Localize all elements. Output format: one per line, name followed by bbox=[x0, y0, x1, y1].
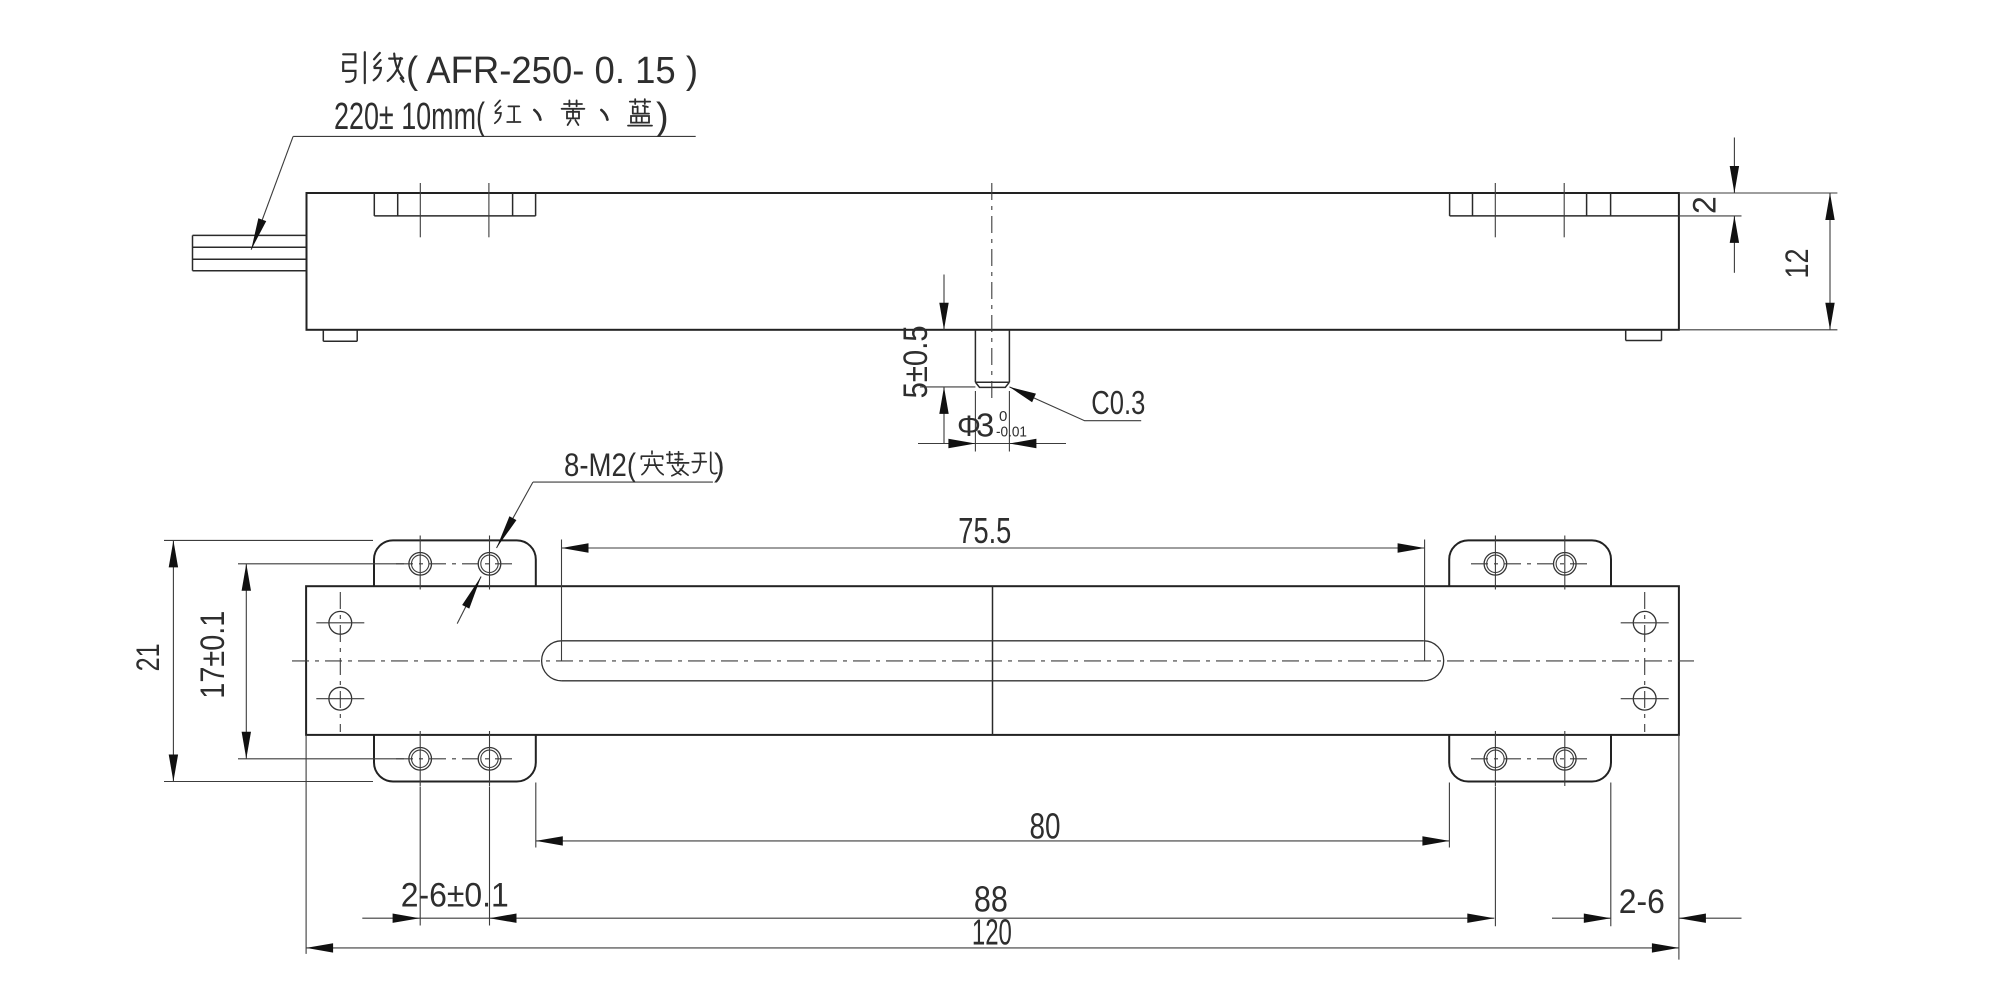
svg-text:C0.3: C0.3 bbox=[1091, 384, 1145, 421]
svg-text:2-6±0.1: 2-6±0.1 bbox=[401, 876, 509, 914]
dimension 80 bbox=[536, 840, 1450, 842]
dimension 2 (step depth) bbox=[1733, 138, 1735, 194]
svg-text:8-M2(: 8-M2( bbox=[564, 447, 636, 483]
M2 hole 7 bbox=[1484, 748, 1507, 771]
lead wires (3 wires, 4 lines + end cap) bbox=[193, 234, 307, 236]
side view body outline bbox=[307, 193, 1679, 330]
right foot bbox=[1625, 330, 1627, 341]
tab hole centerlines (horizontal dash-dot) bbox=[396, 563, 513, 565]
dimension Φ3 0/-0.01 (pin diameter) bbox=[974, 391, 976, 452]
C0.3 chamfer leader bbox=[1009, 387, 1141, 421]
svg-text:3: 3 bbox=[976, 407, 994, 444]
M2 hole axis lines (side view) bbox=[419, 183, 421, 237]
end hole 1 bbox=[329, 611, 352, 634]
M2 hole 3 bbox=[1484, 553, 1507, 576]
8-M2 mounting holes label bbox=[533, 481, 713, 483]
M2 hole 6 bbox=[478, 748, 501, 771]
dimension 12 (body height) bbox=[1829, 193, 1831, 330]
pin vertical centerline bbox=[991, 183, 993, 400]
top edge extension line bbox=[1679, 192, 1838, 194]
svg-text:220± 10mm(: 220± 10mm( bbox=[334, 96, 485, 138]
center slot (rounded ends) bbox=[562, 640, 1424, 642]
top-left mounting tab bbox=[374, 540, 536, 586]
end hole 2 bbox=[329, 687, 352, 710]
step extension line bbox=[1679, 215, 1742, 217]
top-right mounting tab bbox=[1449, 540, 1611, 586]
svg-text:12: 12 bbox=[1779, 249, 1815, 279]
pin bottom extension bbox=[920, 386, 976, 388]
svg-text:80: 80 bbox=[1030, 806, 1061, 847]
svg-text:( AFR-250- 0. 15 ): ( AFR-250- 0. 15 ) bbox=[406, 50, 698, 92]
center divider line bbox=[992, 586, 994, 735]
svg-text:120: 120 bbox=[972, 912, 1012, 953]
plan view body outline bbox=[306, 586, 1679, 735]
M2 hole 2 bbox=[478, 553, 501, 576]
svg-text:): ) bbox=[656, 96, 669, 138]
label line1 引线（AFR-250-0.15） bbox=[343, 52, 365, 83]
extension lines below left tab holes bbox=[419, 787, 421, 926]
dimension 17±0.1 (hole row spacing) bbox=[245, 564, 247, 759]
lead wire label leader bbox=[293, 135, 696, 137]
end hole 4 bbox=[1633, 687, 1656, 710]
bottom-left mounting tab bbox=[374, 735, 536, 782]
M2 hole 8 bbox=[1554, 748, 1577, 771]
right top notch and 2mm step bbox=[1449, 193, 1451, 216]
bottom-right mounting tab bbox=[1449, 735, 1611, 782]
dimension 2-6±0.1 and 88 shared line bbox=[362, 917, 1494, 919]
left foot bbox=[322, 330, 324, 342]
end hole 3 bbox=[1633, 611, 1656, 634]
main horizontal centerline bbox=[292, 660, 1694, 662]
dimension 21 (overall width) bbox=[172, 540, 174, 781]
svg-text:-0.01: -0.01 bbox=[996, 424, 1027, 441]
dimension 120 (overall length) bbox=[306, 947, 1679, 949]
M2 hole 4 bbox=[1554, 553, 1577, 576]
dimension 2-6 (right) bbox=[1552, 917, 1611, 919]
bottom edge extension line bbox=[1679, 329, 1838, 331]
svg-text:75.5: 75.5 bbox=[958, 510, 1011, 551]
svg-text:0: 0 bbox=[999, 408, 1007, 425]
center pin (load button) with chamfer bbox=[974, 330, 976, 382]
M2 hole 5 bbox=[409, 748, 432, 771]
svg-text:17±0.1: 17±0.1 bbox=[194, 611, 232, 699]
svg-text:2: 2 bbox=[1687, 196, 1723, 214]
M2 hole 1 bbox=[409, 553, 432, 576]
svg-text:2-6: 2-6 bbox=[1619, 883, 1665, 921]
dimension 75.5 (slot length) bbox=[562, 547, 1425, 549]
left top notch (cable clamp recess) bbox=[373, 193, 375, 216]
extension lines right side bbox=[1494, 787, 1496, 927]
svg-text:): ) bbox=[714, 447, 725, 483]
end hole vertical centerlines bbox=[339, 592, 341, 732]
svg-text:21: 21 bbox=[130, 643, 166, 671]
dimension 5±0.5 (pin length) bbox=[943, 275, 945, 330]
